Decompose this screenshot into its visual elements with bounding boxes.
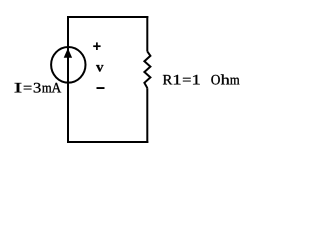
label I=3mA [15,83,62,93]
wire left rail [67,16,69,143]
label R1=1 Ohm [163,74,240,84]
current source I circle [51,47,85,83]
label + polarity [93,42,100,50]
label v node voltage [96,65,104,72]
current source arrow head [64,48,72,58]
wire top rail [67,16,148,18]
wire right rail lower [146,88,148,143]
resistor R1 zigzag [144,52,150,89]
wire bottom rail [67,141,148,143]
wire right rail upper [146,16,148,52]
label - polarity [97,87,105,89]
